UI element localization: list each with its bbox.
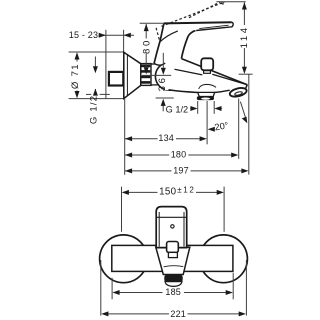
aerator boss bump bbox=[199, 84, 216, 89]
dia71 bbox=[75, 52, 80, 59]
svg-text:80: 80 bbox=[141, 38, 152, 54]
spout edges bbox=[169, 59, 248, 93]
svg-text:Ø 71: Ø 71 bbox=[70, 63, 81, 89]
svg-text:221: 221 bbox=[170, 309, 186, 319]
20 deg leader bbox=[240, 102, 246, 119]
134 / 180 / 197 extensions bbox=[124, 98, 126, 175]
150 +-12 bbox=[121, 187, 123, 232]
handle lever bbox=[164, 22, 233, 30]
80 bbox=[144, 24, 149, 31]
handle front bbox=[156, 207, 187, 248]
aerator black band bbox=[164, 275, 182, 282]
handle cap fill bbox=[154, 23, 196, 69]
180 bbox=[125, 153, 132, 158]
wall section lines bbox=[106, 30, 124, 99]
134 bbox=[125, 138, 158, 140]
80 bbox=[140, 22, 164, 24]
cartridge dome circle bbox=[155, 62, 183, 90]
connection nut striped bbox=[141, 64, 151, 86]
221 bbox=[101, 311, 108, 316]
svg-text:134: 134 bbox=[158, 133, 174, 143]
G1/2 left small bbox=[93, 66, 98, 73]
aerator rim bottom view bbox=[165, 281, 182, 287]
15-23 bbox=[99, 34, 135, 36]
180 bbox=[125, 154, 169, 156]
197 bbox=[125, 168, 132, 173]
svg-text:G 1/2: G 1/2 bbox=[89, 95, 100, 124]
dashed raised lever bbox=[156, 2, 225, 42]
dimension texts bbox=[69, 25, 250, 319]
ticks for dia71 bbox=[69, 52, 125, 99]
G 1/2 aerator bbox=[197, 101, 199, 114]
36 bbox=[161, 68, 166, 75]
dia71 line bbox=[76, 53, 78, 61]
185 bbox=[112, 290, 119, 295]
arrowheads bbox=[75, 2, 249, 316]
spout mouth bbox=[229, 86, 248, 98]
diverter knob bbox=[201, 58, 213, 70]
diverter knob base bbox=[204, 70, 211, 73]
114 bbox=[242, 2, 247, 9]
svg-text:±12: ±12 bbox=[177, 186, 195, 195]
svg-text:197: 197 bbox=[173, 166, 189, 176]
svg-text:36: 36 bbox=[157, 75, 168, 91]
134 bbox=[125, 136, 132, 141]
svg-text:G 1/2: G 1/2 bbox=[166, 105, 188, 115]
svg-text:185: 185 bbox=[165, 287, 181, 297]
escutcheon right bbox=[200, 235, 248, 283]
svg-text:114: 114 bbox=[239, 25, 250, 48]
spout body fill bbox=[163, 59, 247, 98]
G1/2 aerator bbox=[190, 106, 197, 111]
114 bbox=[216, 1, 245, 3]
escutcheon left bbox=[100, 235, 148, 283]
central body trapezoid bbox=[156, 247, 190, 274]
handle cap edges bbox=[154, 23, 196, 65]
197 bbox=[125, 170, 172, 172]
G 1/2 left bbox=[94, 57, 96, 68]
escutcheon cone bbox=[124, 52, 141, 98]
20deg bbox=[208, 127, 215, 132]
150 bbox=[122, 190, 129, 195]
221 bbox=[100, 260, 102, 316]
aerator side view bbox=[198, 92, 215, 96]
svg-text:15 - 23: 15 - 23 bbox=[69, 30, 98, 40]
svg-text:150: 150 bbox=[159, 187, 176, 198]
knob front bbox=[167, 242, 179, 253]
pipe square fitting bbox=[109, 72, 123, 86]
36 bbox=[162, 53, 164, 68]
svg-text:180: 180 bbox=[171, 150, 187, 160]
185 bbox=[111, 278, 113, 300]
15-23 inward pair bbox=[99, 33, 106, 38]
body bar bbox=[112, 245, 233, 271]
